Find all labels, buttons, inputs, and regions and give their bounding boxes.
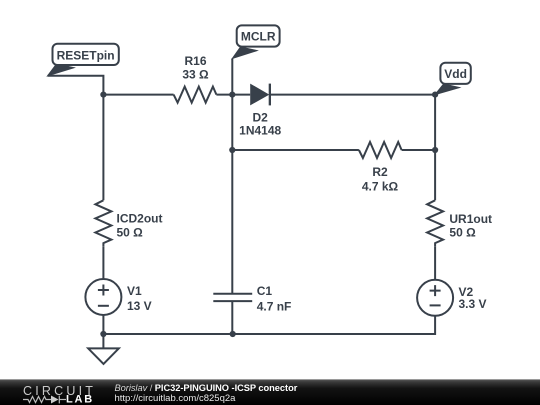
wire capacitor C1 bottom to bottom wire [231,301,233,334]
footer logo squiggle diode [51,396,59,404]
junction node right rail / R2 [432,147,438,153]
capacitor C1 bottom plate [213,300,252,302]
wire left rail junction down to ICD2out [102,95,104,201]
ground symbol triangle [88,348,119,364]
svg-text:50 Ω: 50 Ω [449,226,476,240]
wire ground stub [102,334,104,348]
resistor UR1out zigzag [427,200,443,246]
junction node at left rail top [100,92,106,98]
wire mid rail junction down to capacitor C1 top [231,150,233,294]
wire mid rail diode junction down to mid junction [231,95,233,150]
junction node ground [100,331,106,337]
svg-text:13 V: 13 V [127,299,152,313]
diode D2 cathode bar [269,84,271,106]
footer logo squiggle [23,396,66,404]
svg-text:LAB: LAB [66,393,94,405]
junction node MCLR/diode [229,92,235,98]
svg-text:C1: C1 [257,284,273,298]
flag Vdd [435,63,471,95]
svg-text:D2: D2 [253,111,269,125]
svg-text:4.7 nF: 4.7 nF [257,300,292,314]
wire bottom C1 junction to ground junction [103,333,232,335]
flag RESETpin [48,44,119,76]
junction node mid rail / R2 wire [229,147,235,153]
V2 minus sign [430,304,441,306]
voltage source V1 circle [85,279,121,315]
V2 plus sign [430,285,441,296]
wire V2 bottom to bottom wire [233,316,435,334]
svg-text:33 Ω: 33 Ω [182,67,209,81]
wire V1 bottom to ground junction [102,315,104,334]
wire ICD2out to V1 top [102,246,104,279]
wire MCLR flag stem [231,59,233,95]
V1 minus sign [98,305,109,307]
resistor ICD2out zigzag [95,200,111,246]
svg-text:V1: V1 [127,284,142,298]
svg-text:Borislav / PIC32-PINGUINO -ICS: Borislav / PIC32-PINGUINO -ICSP conector [115,383,298,393]
svg-text:UR1out: UR1out [449,212,492,226]
svg-text:R16: R16 [184,54,206,68]
diode D2 triangle [250,84,269,106]
wire mid junction to R2 [232,149,359,151]
svg-text:3.3 V: 3.3 V [459,297,487,311]
svg-text:ICD2out: ICD2out [117,211,163,225]
junction node Vdd corner [432,92,438,98]
wire R16 to diode D2 anode [216,94,250,96]
svg-text:4.7 kΩ: 4.7 kΩ [362,179,399,193]
wire flag RESETpin to left rail corner [48,76,104,95]
resistor R2 zigzag [359,142,402,158]
junction node capacitor bottom [230,331,236,337]
svg-text:MCLR: MCLR [241,30,276,44]
svg-text:http://circuitlab.com/c825q2a: http://circuitlab.com/c825q2a [115,393,237,404]
svg-text:RESETpin: RESETpin [57,48,115,62]
wire UR1out to V2 top [434,246,436,279]
svg-text:1N4148: 1N4148 [239,124,281,138]
wire right rail R2 junction down to UR1out [434,150,436,200]
wire right rail Vdd corner down to R2 junction [434,95,436,150]
flag MCLR [232,25,279,58]
wire left rail top junction to R16 [103,94,173,96]
voltage source V2 circle [417,280,453,316]
resistor R16 zigzag [174,87,217,103]
wire R2 to right rail [402,149,436,151]
V1 plus sign [98,285,109,296]
svg-text:50 Ω: 50 Ω [117,226,144,240]
svg-text:R2: R2 [372,165,388,179]
wire diode D2 cathode to Vdd corner [271,94,435,96]
svg-text:Vdd: Vdd [444,67,467,81]
capacitor C1 top plate [213,293,252,295]
footer bar [0,379,540,405]
